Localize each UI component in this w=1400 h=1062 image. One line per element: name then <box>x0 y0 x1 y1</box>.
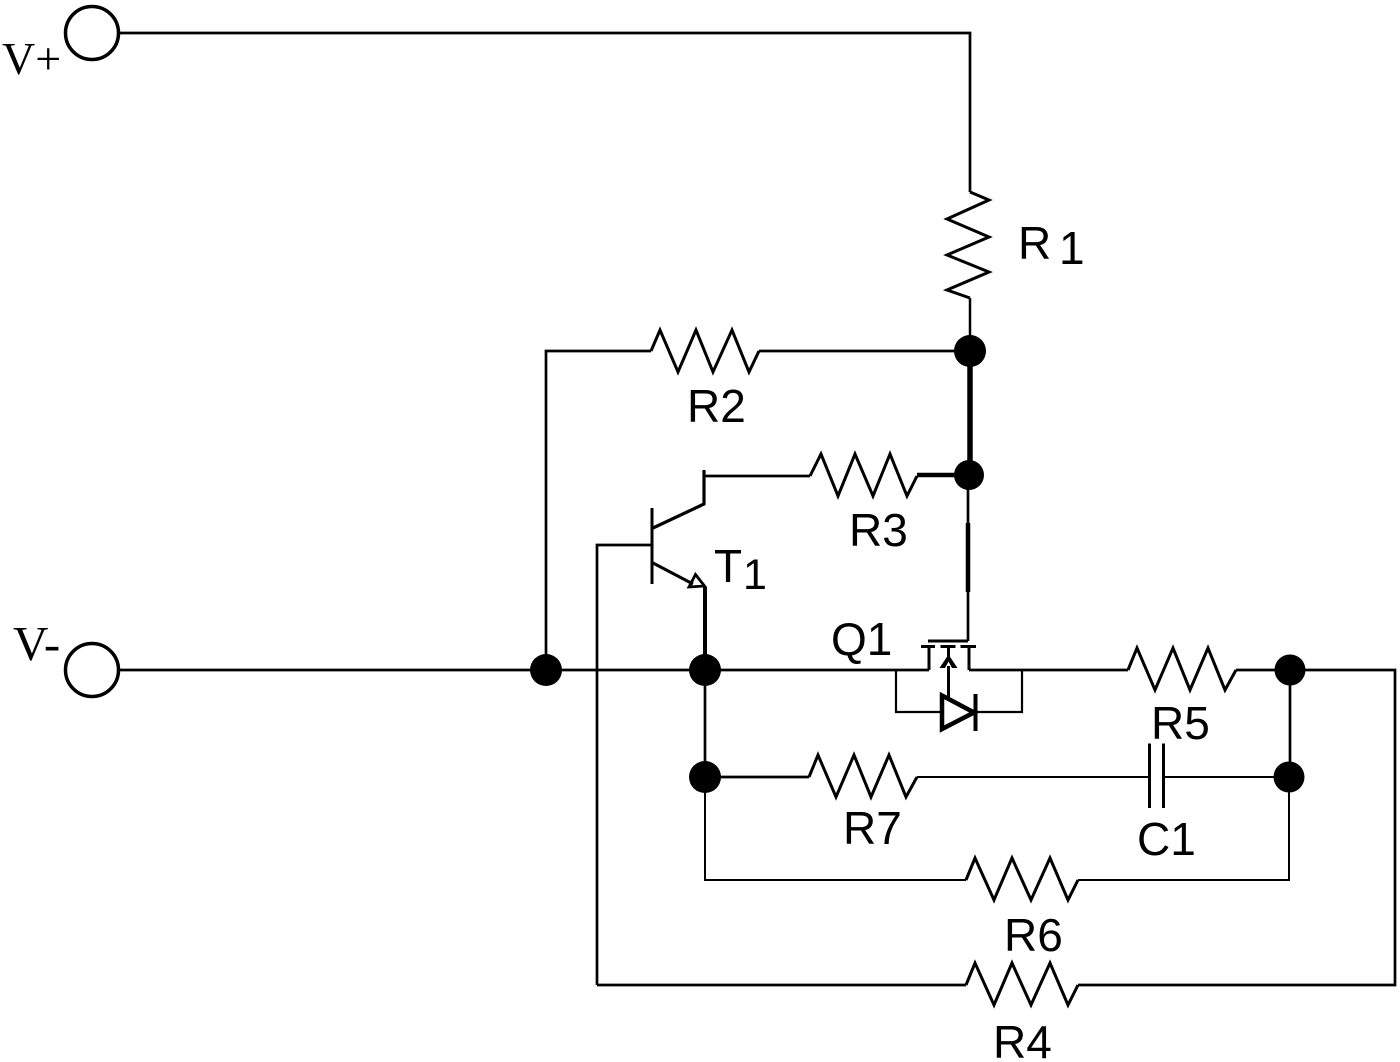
node F junction dot (R5 right) <box>1275 655 1306 686</box>
mosfet Q1 <box>831 475 1022 731</box>
wire R2 right to node A <box>759 350 970 353</box>
terminal V+ <box>2 7 119 85</box>
wire node E down to R6 line <box>705 777 966 880</box>
resistor R4 <box>966 963 1078 1062</box>
resistor R3 <box>810 454 917 556</box>
node C junction dot (R2 branch on V- line) <box>530 654 562 686</box>
svg-text:V+: V+ <box>2 33 61 84</box>
resistor R1 <box>947 192 1085 298</box>
svg-text:Q1: Q1 <box>831 613 892 665</box>
svg-text:T: T <box>714 540 742 592</box>
wire R1 to node A <box>969 298 972 351</box>
wire T1 base down to R4 <box>597 545 652 985</box>
capacitor C1 <box>1137 744 1289 866</box>
wire bold node A to node B <box>967 351 973 475</box>
resistor R5 <box>969 648 1236 749</box>
svg-text:C1: C1 <box>1137 813 1196 865</box>
svg-text:R4: R4 <box>993 1016 1052 1062</box>
svg-text:R2: R2 <box>687 380 746 432</box>
resistor R6 <box>966 858 1078 961</box>
wire R5 right along edge down to R4 <box>1078 670 1395 985</box>
svg-text:R7: R7 <box>843 802 902 854</box>
wire node D down to node E <box>704 670 707 777</box>
transistor T1 <box>652 470 767 670</box>
resistor R2 <box>651 330 759 432</box>
wire T1 collector to R3 <box>704 475 810 478</box>
wire V- horizontal to Q1 source <box>119 669 929 672</box>
wire R4 left to T1 base line <box>597 984 966 987</box>
wire R2 left branch down to node C <box>546 351 651 670</box>
node G junction dot (C1 right) <box>1274 762 1305 793</box>
terminal V- <box>13 616 119 697</box>
svg-text:R5: R5 <box>1151 697 1210 749</box>
wire R7 to C1 <box>917 776 1149 778</box>
svg-text:1: 1 <box>743 551 767 599</box>
svg-text:R6: R6 <box>1004 909 1063 961</box>
svg-text:V-: V- <box>13 616 60 671</box>
node E junction dot <box>689 761 721 793</box>
wire V+ to R1 (top horizontal and drop) <box>119 33 970 192</box>
node A junction dot <box>954 335 986 367</box>
node D junction dot (T1 emitter on V- line) <box>689 654 721 686</box>
wire R6 right up to node G <box>1078 777 1289 880</box>
svg-text:1: 1 <box>1059 222 1085 274</box>
wire R3 right to node B (bold) <box>917 473 969 478</box>
node B junction dot <box>954 460 984 490</box>
wire node F down to node G <box>1289 670 1292 777</box>
svg-text:R3: R3 <box>849 504 908 556</box>
svg-text:R: R <box>1018 217 1051 269</box>
resistor R7 <box>705 755 917 854</box>
